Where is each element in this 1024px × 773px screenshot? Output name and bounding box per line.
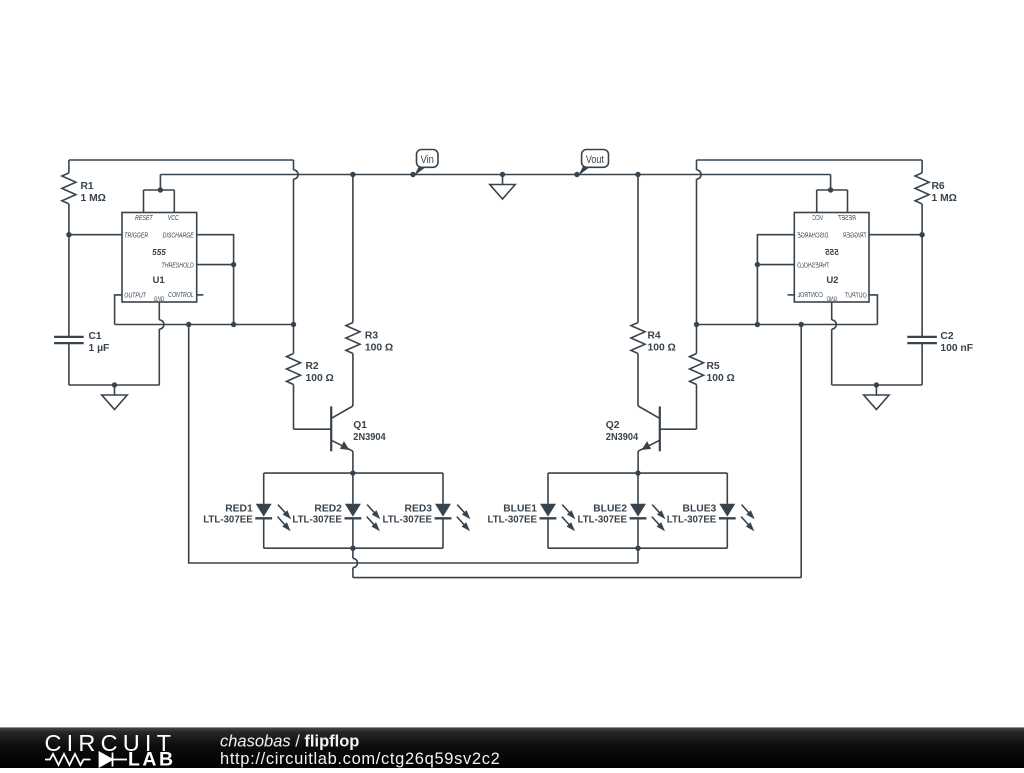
- svg-text:RESET: RESET: [837, 214, 856, 222]
- svg-text:R2: R2: [306, 361, 319, 372]
- node RED2 bottom junction: [350, 546, 355, 551]
- wire red LED box top rail: [264, 472, 443, 474]
- node BLUE2 bottom junction: [635, 546, 640, 551]
- wire U1 DISCHARGE right and down: [197, 235, 234, 325]
- svg-text:LTL-307EE: LTL-307EE: [383, 515, 433, 526]
- svg-text:chasobas / flipflop: chasobas / flipflop: [220, 732, 359, 750]
- svg-text:TRIGGER: TRIGGER: [842, 232, 866, 240]
- svg-text:LTL-307EE: LTL-307EE: [488, 515, 538, 526]
- svg-text:RED1: RED1: [225, 504, 253, 515]
- resistor R2: [293, 325, 295, 354]
- svg-text:R5: R5: [707, 361, 720, 372]
- resistor R3: [352, 175, 354, 323]
- ground symbol middle: [500, 172, 505, 177]
- svg-text:C2: C2: [940, 331, 953, 342]
- LED BLUE2 LTL-307EE: [630, 473, 666, 548]
- svg-text:100 Ω: 100 Ω: [648, 342, 676, 353]
- resistor R5: [696, 325, 698, 354]
- wire U1 bridge riser: [159, 175, 161, 191]
- svg-text:Q2: Q2: [606, 420, 620, 431]
- wire U2 GND down with hop: [831, 302, 833, 320]
- wire U2 OUTPUT leg: [869, 295, 877, 325]
- node U2 bridge junction: [828, 187, 833, 192]
- svg-text:555: 555: [825, 248, 839, 257]
- svg-text:OUTPUT: OUTPUT: [844, 292, 867, 300]
- svg-text:100 Ω: 100 Ω: [365, 342, 393, 353]
- wire RED2 to U2-output return: [353, 577, 801, 579]
- svg-text:TRIGGER: TRIGGER: [124, 232, 148, 240]
- svg-text:BLUE3: BLUE3: [683, 504, 717, 515]
- resistor R4: [637, 175, 639, 323]
- svg-text:DISCHARGE: DISCHARGE: [796, 232, 828, 240]
- node output rail junction f: [694, 322, 699, 327]
- svg-text:BLUE2: BLUE2: [593, 504, 627, 515]
- ground symbol right: [875, 385, 877, 395]
- transistor Q1 2N3904: [331, 406, 353, 473]
- wire right return riser: [800, 325, 802, 578]
- wire U1 OUTPUT leg: [115, 295, 122, 325]
- node output rail junction a: [186, 322, 191, 327]
- svg-text:R3: R3: [365, 330, 378, 341]
- pin U2 RESET: [847, 190, 849, 213]
- pin stub U1 CONTROL: [197, 294, 204, 296]
- svg-text:RED2: RED2: [314, 504, 342, 515]
- LED RED3 LTL-307EE: [435, 473, 471, 548]
- wire blue LED box bottom rail: [548, 547, 727, 549]
- node TRIGGER junction right: [919, 232, 924, 237]
- wire C1 bottom rail: [69, 384, 160, 386]
- svg-text:LTL-307EE: LTL-307EE: [667, 515, 717, 526]
- node output rail junction c: [291, 322, 296, 327]
- svg-text:VCC: VCC: [812, 214, 824, 222]
- node ground junction left: [112, 382, 117, 387]
- wire R2 to Q1 base: [294, 428, 332, 430]
- IC U1 555 timer body: [122, 213, 197, 303]
- node Q1 emitter to RED2: [350, 470, 355, 475]
- wire U2 bridge riser: [830, 175, 832, 191]
- wire U2 TRIGGER to R6/C2: [869, 234, 922, 236]
- wire C2 bottom rail: [832, 384, 922, 386]
- node R4 top junction: [635, 172, 640, 177]
- svg-text:LTL-307EE: LTL-307EE: [578, 515, 628, 526]
- svg-text:DISCHARGE: DISCHARGE: [163, 232, 195, 240]
- svg-text:LAB: LAB: [128, 749, 176, 768]
- svg-text:1 MΩ: 1 MΩ: [81, 193, 106, 204]
- svg-text:C1: C1: [89, 331, 102, 342]
- wire right drop from top rail with hop: [696, 160, 698, 170]
- node output rail junction b: [231, 322, 236, 327]
- pin U2 VCC: [816, 190, 818, 213]
- wire top-right VCC rail: [697, 159, 923, 161]
- svg-text:R1: R1: [81, 181, 94, 192]
- svg-text:BLUE1: BLUE1: [503, 504, 537, 515]
- svg-text:2N3904: 2N3904: [353, 432, 386, 443]
- node TRIGGER junction left: [66, 232, 71, 237]
- node Vin flag: [414, 150, 438, 176]
- node R3 top junction: [350, 172, 355, 177]
- svg-text:CONTROL: CONTROL: [797, 291, 823, 299]
- transistor Q2 2N3904 (mirrored): [638, 406, 660, 473]
- capacitor C2: [907, 336, 937, 338]
- pin stub U2 CONTROL: [788, 294, 795, 296]
- node output rail junction d: [799, 322, 804, 327]
- svg-text:Vout: Vout: [586, 154, 604, 166]
- LED RED2 LTL-307EE: [345, 473, 381, 548]
- svg-text:THRESHOLD: THRESHOLD: [797, 262, 830, 270]
- wire U1 reset-vcc bridge: [144, 189, 175, 191]
- wire output rail right: [697, 324, 878, 326]
- node Vout flag: [578, 150, 608, 176]
- wire red LED box bottom rail: [264, 547, 443, 549]
- svg-text:R4: R4: [648, 330, 661, 341]
- svg-text:CONTROL: CONTROL: [168, 291, 194, 299]
- resistor R1: [68, 160, 70, 173]
- svg-text:LTL-307EE: LTL-307EE: [203, 515, 253, 526]
- node THRESHOLD junction right: [755, 262, 760, 267]
- svg-text:U2: U2: [826, 275, 838, 286]
- node Q2 emitter to BLUE2: [635, 470, 640, 475]
- svg-text:1 µF: 1 µF: [89, 343, 110, 354]
- wire BLUE2 bottom drop: [637, 548, 639, 563]
- wire U2 DISCHARGE left and down: [757, 235, 794, 325]
- node THRESHOLD junction left: [231, 262, 236, 267]
- svg-text:RESET: RESET: [135, 214, 154, 222]
- svg-text:Vin: Vin: [420, 154, 434, 166]
- node U1 bridge junction: [158, 187, 163, 192]
- node Vout junction: [574, 172, 579, 177]
- ground symbol left: [114, 385, 116, 395]
- wire U2 THRESHOLD: [757, 264, 794, 266]
- svg-text:VCC: VCC: [168, 214, 180, 222]
- svg-text:100 Ω: 100 Ω: [707, 373, 735, 384]
- wire U1 THRESHOLD: [197, 264, 234, 266]
- wire U1 GND down with hop: [158, 302, 160, 320]
- svg-text:U1: U1: [153, 275, 166, 286]
- svg-text:LTL-307EE: LTL-307EE: [292, 515, 342, 526]
- wire RED2 bottom drop with hop: [352, 548, 354, 558]
- svg-text:OUTPUT: OUTPUT: [124, 292, 147, 300]
- node Vin junction: [410, 172, 415, 177]
- svg-text:2N3904: 2N3904: [606, 432, 639, 443]
- node output rail junction e: [755, 322, 760, 327]
- node ground junction right: [874, 382, 879, 387]
- LED BLUE1 LTL-307EE: [540, 473, 576, 548]
- wire main horizontal rail: [160, 174, 830, 176]
- wire left drop from top rail with hop: [293, 160, 295, 170]
- svg-text:100 Ω: 100 Ω: [306, 373, 334, 384]
- svg-text:1 MΩ: 1 MΩ: [932, 193, 957, 204]
- svg-text:RED3: RED3: [405, 504, 433, 515]
- resistor R6: [921, 160, 923, 173]
- wire U1 TRIGGER to R1/C1: [69, 234, 122, 236]
- LED RED1 LTL-307EE: [255, 473, 291, 548]
- wire R5 to Q2 base: [660, 428, 697, 430]
- logo resistor-diode glyph: [45, 753, 127, 767]
- capacitor C1: [54, 336, 84, 338]
- svg-text:Q1: Q1: [353, 420, 367, 431]
- wire top-left VCC rail: [69, 159, 294, 161]
- pin U1 VCC: [173, 190, 175, 213]
- svg-text:100 nF: 100 nF: [940, 343, 973, 354]
- svg-text:THRESHOLD: THRESHOLD: [161, 262, 194, 270]
- wire output rail left: [115, 324, 294, 326]
- pin U1 RESET: [143, 190, 145, 213]
- LED BLUE3 LTL-307EE: [719, 473, 755, 548]
- wire blue LED box top rail: [548, 472, 727, 474]
- svg-text:http://circuitlab.com/ctg26q59: http://circuitlab.com/ctg26q59sv2c2: [220, 750, 500, 768]
- wire U1-output to BLUE2 return: [189, 325, 638, 564]
- IC U2 555 timer body (mirrored): [794, 213, 869, 304]
- svg-text:555: 555: [152, 248, 166, 257]
- svg-text:R6: R6: [932, 181, 945, 192]
- wire U2 reset-vcc bridge: [817, 189, 848, 191]
